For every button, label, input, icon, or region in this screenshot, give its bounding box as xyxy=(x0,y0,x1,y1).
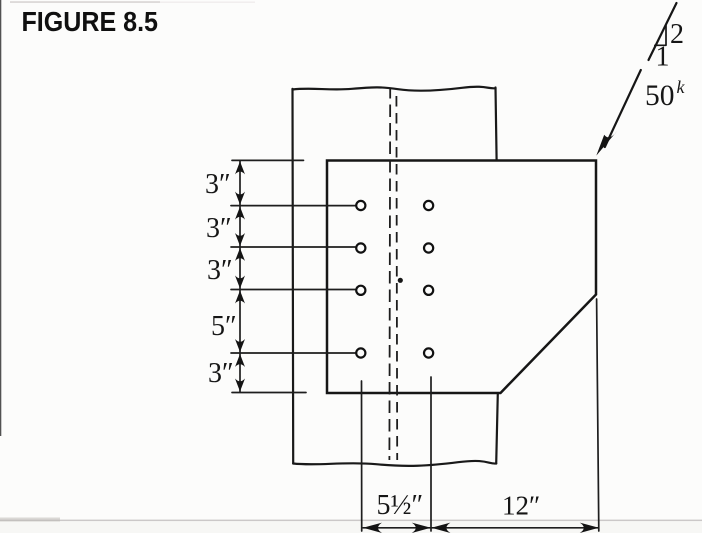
svg-text:3″: 3″ xyxy=(207,255,233,286)
svg-text:5″: 5″ xyxy=(211,311,237,342)
svg-text:k: k xyxy=(677,77,686,97)
svg-text:12″: 12″ xyxy=(502,491,540,521)
svg-text:3″: 3″ xyxy=(208,358,234,389)
svg-text:2: 2 xyxy=(670,19,684,50)
svg-text:FIGURE 8.5: FIGURE 8.5 xyxy=(22,6,159,37)
svg-text:1: 1 xyxy=(656,42,670,73)
svg-text:5½″: 5½″ xyxy=(377,490,424,521)
svg-text:3″: 3″ xyxy=(205,169,231,200)
svg-text:50: 50 xyxy=(645,80,675,112)
svg-text:3″: 3″ xyxy=(206,213,232,244)
